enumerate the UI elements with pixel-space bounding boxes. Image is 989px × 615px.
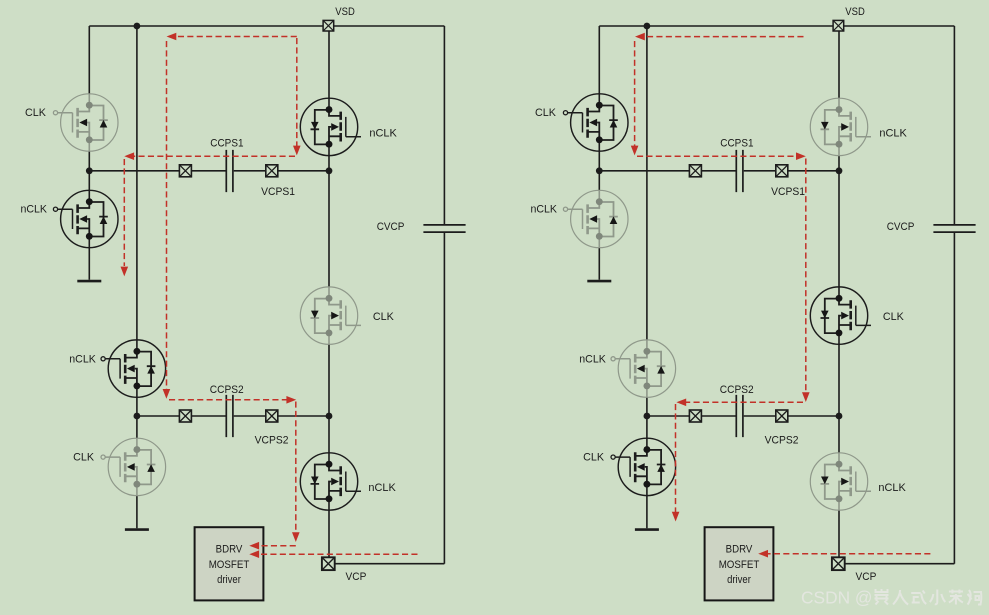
svg-text:CLK: CLK xyxy=(583,451,605,463)
wire: column B (left) xyxy=(136,26,138,528)
wire: left column A (left) xyxy=(88,26,90,280)
svg-text:CSDN @: CSDN @ xyxy=(801,588,873,608)
node: VCPS1 junction (right) xyxy=(836,167,843,174)
ground: below Q4 (left) xyxy=(125,528,149,531)
svg-text:VSD: VSD xyxy=(335,6,355,18)
svg-text:driver: driver xyxy=(217,574,241,586)
ground: below Q2 (right) xyxy=(587,280,611,283)
wire: bottom VCP-to-rail (right) xyxy=(845,563,955,565)
svg-text:VSD: VSD xyxy=(845,6,865,18)
wire: red dashed CCPS2 row horizontal with left arrow (right) xyxy=(681,401,803,403)
wire: column C (right) xyxy=(838,31,840,557)
node: CCPS1 left junction (right) xyxy=(596,167,603,174)
svg-text:nCLK: nCLK xyxy=(531,203,558,215)
BDRV MOSFET driver box (right) xyxy=(705,527,774,600)
svg-text:driver: driver xyxy=(727,574,751,586)
svg-text:VCP: VCP xyxy=(856,571,877,583)
transistor Q3 nCLK (right) xyxy=(611,340,676,397)
terminal CCPS2 left pin (right) xyxy=(689,410,701,422)
wire: CCPS2 row (left) xyxy=(137,415,329,417)
wire: bottom VCP-to-rail (left) xyxy=(335,563,445,565)
wire: red dashed arrow VCP to BDRV (right) xyxy=(763,553,930,555)
wire: right rail with CVCP gap (left) xyxy=(443,26,445,564)
wire: red dashed vertical x635 to VCPS1 row with arrow (right) xyxy=(634,41,636,147)
node: top junction (right) xyxy=(644,23,651,30)
wire: right rail with CVCP gap (right) xyxy=(953,26,955,564)
transistor Q2 nCLK (right) xyxy=(563,190,628,247)
node: CCPS1 left junction (left) xyxy=(86,167,93,174)
transistor Q5 nCLK (right) xyxy=(810,98,871,155)
capacitor CCPS2 (right) xyxy=(736,395,743,437)
wire: left column A (right) xyxy=(598,26,600,280)
capacitor CVCP (left) xyxy=(423,225,465,232)
svg-text:VCPS1: VCPS1 xyxy=(771,186,805,198)
wire: red dashed path, top horizontal with left arrow (right) xyxy=(639,36,804,38)
svg-text:CLK: CLK xyxy=(535,107,557,119)
svg-text:nCLK: nCLK xyxy=(368,482,396,494)
svg-text:CLK: CLK xyxy=(373,311,395,323)
capacitor CCPS2 (left) xyxy=(226,395,233,437)
node: top junction (left) xyxy=(134,23,141,30)
svg-text:nCLK: nCLK xyxy=(21,203,48,215)
wire: red dashed CCPS2 row horizontal with right arrow (left) xyxy=(169,399,287,401)
terminal CCPS2 left pin (left) xyxy=(179,410,191,422)
terminal VCP (left) xyxy=(322,557,335,570)
terminal CCPS1 left pin (left) xyxy=(179,165,191,177)
terminal VSD (left) xyxy=(323,20,334,31)
svg-text:VCPS1: VCPS1 xyxy=(261,186,295,198)
terminal VSD (right) xyxy=(833,20,844,31)
svg-text:VCP: VCP xyxy=(346,571,367,583)
terminal CCPS1 left pin (right) xyxy=(689,165,701,177)
svg-text:VCPS2: VCPS2 xyxy=(765,434,799,446)
capacitor CCPS1 (right) xyxy=(736,150,743,192)
transistor Q3 nCLK (left) xyxy=(101,340,166,397)
wire: top rail (right) xyxy=(599,25,954,27)
terminal CCPS1 right pin / VCPS1 (left) xyxy=(266,165,278,177)
svg-text:CLK: CLK xyxy=(883,311,905,323)
capacitor CCPS1 (left) xyxy=(226,150,233,192)
ground: below Q4 (right) xyxy=(635,528,659,531)
svg-text:BDRV: BDRV xyxy=(216,544,244,556)
right charge-pump phase circuit xyxy=(531,6,976,600)
wire: red dashed vertical x124 to ground with arrow (left) xyxy=(123,159,125,266)
svg-text:CCPS2: CCPS2 xyxy=(720,384,754,396)
BDRV MOSFET driver box (left) xyxy=(195,527,264,600)
transistor Q1 CLK high-side (right) xyxy=(563,94,628,151)
ground: below Q2 (left) xyxy=(77,280,101,283)
wire: red dashed vertical x167 down to CCPS2 row with arrow (left) xyxy=(166,41,168,390)
svg-text:BDRV: BDRV xyxy=(726,544,754,556)
transistor Q7 nCLK (left) xyxy=(300,453,361,510)
wire: red dashed vertical x676 to ground with arrow (right) xyxy=(675,404,677,512)
wire: CCPS1 row (left) xyxy=(89,170,329,172)
node: CCPS2 left junction (left) xyxy=(134,413,141,420)
svg-text:nCLK: nCLK xyxy=(369,127,397,139)
terminal CCPS1 right pin / VCPS1 (right) xyxy=(776,165,788,177)
transistor Q1 CLK high-side (left) xyxy=(53,94,118,151)
svg-text:nCLK: nCLK xyxy=(878,482,906,494)
wire: red dashed VCPS1 row horizontal with left arrow (left) xyxy=(129,155,295,157)
svg-text:nCLK: nCLK xyxy=(879,127,907,139)
wire: red dashed arrow into BDRV upper (left) xyxy=(254,545,296,547)
node: VCPS1 junction (left) xyxy=(326,167,333,174)
svg-text:CVCP: CVCP xyxy=(887,221,915,233)
wire: CCPS2 row (right) xyxy=(647,415,839,417)
node: VCPS2 junction (left) xyxy=(326,413,333,420)
svg-text:CCPS2: CCPS2 xyxy=(210,384,244,396)
transistor Q4 CLK (left) xyxy=(101,438,166,495)
wire: top rail (left) xyxy=(89,25,444,27)
svg-text:CCPS1: CCPS1 xyxy=(720,138,753,150)
node: CCPS2 left junction (right) xyxy=(644,413,651,420)
wire: red dashed vertical x296 down with arrow (left) xyxy=(295,402,297,534)
wire: CCPS1 row (right) xyxy=(599,170,839,172)
svg-text:VCPS2: VCPS2 xyxy=(255,434,289,446)
svg-text:CCPS1: CCPS1 xyxy=(210,138,243,150)
wire: red dashed vertical x806 to CCPS2 row with arrow (right) xyxy=(805,159,807,394)
svg-text:MOSFET: MOSFET xyxy=(719,559,760,571)
capacitor CVCP (right) xyxy=(933,225,975,232)
node: VCPS2 junction (right) xyxy=(836,413,843,420)
wire: red dashed arrow VCP to BDRV (left) xyxy=(254,553,418,555)
transistor Q4 CLK (right) xyxy=(611,438,676,495)
wire: red dashed path, top horizontal with left arrow (left) xyxy=(170,36,297,38)
svg-text:MOSFET: MOSFET xyxy=(209,559,250,571)
svg-text:CLK: CLK xyxy=(25,107,47,119)
wire: red dashed vertical x297 to VCPS1 row with arrow (left) xyxy=(296,38,298,147)
terminal VCP (right) xyxy=(832,557,845,570)
svg-text:nCLK: nCLK xyxy=(69,354,96,366)
wire: column C (left) xyxy=(328,31,330,557)
terminal CCPS2 right pin / VCPS2 (right) xyxy=(776,410,788,422)
svg-text:CVCP: CVCP xyxy=(377,221,405,233)
transistor Q6 CLK (right) xyxy=(810,287,871,344)
transistor Q7 nCLK (right) xyxy=(810,453,871,510)
watermark CSDN @ handle xyxy=(801,588,981,608)
wire: column B (right) xyxy=(646,26,648,528)
svg-text:CLK: CLK xyxy=(73,451,95,463)
transistor Q2 nCLK (left) xyxy=(53,190,118,247)
terminal CCPS2 right pin / VCPS2 (left) xyxy=(266,410,278,422)
svg-text:nCLK: nCLK xyxy=(579,354,606,366)
wire: red dashed VCPS1 row horizontal with right arrow (right) xyxy=(637,155,797,157)
transistor Q5 nCLK (left) xyxy=(300,98,361,155)
transistor Q6 CLK (left) xyxy=(300,287,361,344)
left charge-pump phase circuit xyxy=(21,6,466,600)
